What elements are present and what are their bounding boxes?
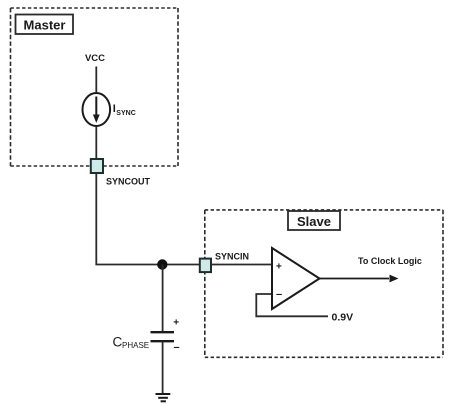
svg-text:VCC: VCC	[85, 53, 105, 64]
svg-text:PHASE: PHASE	[122, 341, 149, 350]
svg-text:–: –	[276, 289, 282, 301]
svg-text:+: +	[173, 318, 179, 329]
svg-text:SYNC: SYNC	[116, 110, 135, 117]
svg-text:Slave: Slave	[297, 214, 331, 229]
svg-text:–: –	[174, 341, 180, 353]
svg-text:SYNCOUT: SYNCOUT	[106, 177, 151, 187]
svg-text:0.9V: 0.9V	[332, 312, 354, 324]
svg-text:C: C	[113, 335, 123, 350]
svg-text:SYNCIN: SYNCIN	[215, 252, 249, 262]
svg-text:Master: Master	[24, 18, 66, 33]
svg-text:To Clock Logic: To Clock Logic	[358, 256, 422, 266]
svg-text:+: +	[276, 262, 282, 273]
